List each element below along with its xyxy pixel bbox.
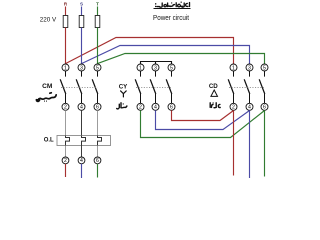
- svg-text:6: 6: [96, 105, 99, 111]
- contact stub lower: [97, 94, 99, 103]
- svg-text:6: 6: [96, 158, 99, 164]
- svg-text:4: 4: [248, 105, 251, 111]
- wire CM terminal to overload: [97, 110, 99, 135]
- wire phase S to CM: [81, 28, 83, 65]
- motor lead (colored): [81, 164, 83, 178]
- motor lead (colored): [65, 164, 67, 177]
- contact terminal 5: [168, 64, 175, 71]
- contact terminal 1: [230, 64, 237, 71]
- contactor CY star bridge bar: [141, 62, 172, 65]
- contact terminal 6: [94, 103, 101, 110]
- label Arabic dilta (delta): [210, 103, 220, 108]
- wire phase S drop: [81, 7, 83, 17]
- svg-text:2: 2: [64, 158, 67, 164]
- contact terminal 4: [246, 103, 253, 110]
- contact stub lower: [249, 94, 251, 103]
- contact stub upper: [155, 71, 157, 77]
- contact blade: [135, 79, 141, 94]
- contact terminal 2: [62, 103, 69, 110]
- contactor CY pole 3: [166, 64, 175, 111]
- overload heater element: [98, 136, 102, 146]
- contact terminal 4: [152, 103, 159, 110]
- star symbol Y: [121, 91, 127, 97]
- wire phase R drop: [65, 7, 67, 17]
- svg-text:T: T: [96, 2, 99, 7]
- contact stub lower: [233, 94, 235, 103]
- svg-text:5: 5: [96, 65, 99, 71]
- svg-text:220 V: 220 V: [40, 17, 57, 24]
- contact terminal 2: [137, 103, 144, 110]
- contactor CY dashed linkage: [136, 87, 172, 89]
- contact stub lower: [155, 94, 157, 103]
- wire phase R feeder to CD: [66, 38, 234, 65]
- contact blade: [92, 79, 98, 94]
- contact terminal 1: [137, 64, 144, 71]
- svg-text:1: 1: [232, 65, 235, 71]
- contact blade: [60, 79, 66, 94]
- contactor CM pole 3: [92, 64, 101, 111]
- label Arabic raisi (main): [36, 93, 56, 102]
- motor terminal 4: [78, 157, 85, 164]
- overload heater element: [82, 136, 86, 146]
- contact blade: [166, 79, 172, 94]
- svg-text:CD: CD: [209, 83, 218, 90]
- CY bar stub middle: [155, 62, 157, 65]
- svg-text:4: 4: [80, 105, 83, 111]
- svg-text:3: 3: [154, 65, 157, 71]
- motor terminal 6: [94, 157, 101, 164]
- contact stub upper: [264, 71, 266, 77]
- contact terminal 5: [94, 64, 101, 71]
- overload heater element: [66, 136, 70, 146]
- contact terminal 6: [261, 103, 268, 110]
- contact stub lower: [140, 94, 142, 103]
- contact terminal 1: [62, 64, 69, 71]
- wire phase S feeder to CD: [82, 46, 250, 65]
- wire CY 4 to CD 4 (blue): [156, 110, 250, 129]
- svg-text:2: 2: [232, 105, 235, 111]
- contactor CM pole 2: [76, 64, 85, 111]
- svg-text:4: 4: [154, 105, 157, 111]
- contactor CY pole 1: [135, 64, 144, 111]
- contactor CM pole 1: [60, 64, 69, 111]
- contact terminal 3: [246, 64, 253, 71]
- contactor CM dashed linkage: [61, 87, 98, 89]
- wire overload to motor terminal: [97, 146, 99, 158]
- svg-text:3: 3: [80, 65, 83, 71]
- contactor CY pole 2: [150, 64, 159, 111]
- title diacritic dots and colon: [155, 2, 182, 8]
- wire phase R to CM: [65, 28, 67, 65]
- motor lead U2 (red): [233, 110, 235, 175]
- wire CY 6 to CD 2 (red): [172, 110, 234, 120]
- contactor CD pole 1: [228, 64, 237, 111]
- wire overload to motor terminal: [65, 146, 67, 158]
- svg-text:O.L: O.L: [44, 138, 54, 144]
- motor lead V2 (blue): [249, 110, 251, 178]
- wire CY 2 to CD 6 (green): [141, 110, 265, 137]
- fuse F1: [63, 16, 68, 28]
- wire overload to motor terminal: [81, 146, 83, 158]
- wire phase T feeder to CD: [98, 54, 265, 65]
- svg-text:1: 1: [64, 65, 67, 71]
- svg-text:2: 2: [64, 105, 67, 111]
- contact stub lower: [65, 94, 67, 103]
- svg-text:CM: CM: [42, 83, 53, 90]
- contact stub upper: [81, 71, 83, 77]
- title underline: [154, 8, 191, 10]
- overload relay O.L box: [57, 136, 111, 146]
- contact stub lower: [81, 94, 83, 103]
- contact terminal 2: [230, 103, 237, 110]
- contactor CD pole 3: [259, 64, 268, 111]
- contactor CD dashed linkage: [229, 87, 265, 89]
- contactor CD pole 2: [244, 64, 253, 111]
- contact blade: [150, 79, 156, 94]
- contact stub upper: [97, 71, 99, 77]
- wire CM terminal to overload: [81, 110, 83, 135]
- fuse F3: [95, 16, 100, 28]
- svg-text:5: 5: [170, 65, 173, 71]
- svg-text:6: 6: [263, 105, 266, 111]
- contact stub upper: [249, 71, 251, 77]
- contact stub upper: [140, 71, 142, 77]
- contact stub lower: [264, 94, 266, 103]
- contact blade: [76, 79, 82, 94]
- delta symbol: [211, 90, 218, 96]
- svg-text:S: S: [80, 2, 83, 7]
- contact stub upper: [171, 71, 173, 77]
- svg-text:5: 5: [263, 65, 266, 71]
- wire phase T drop: [97, 7, 99, 17]
- svg-text:1: 1: [139, 65, 142, 71]
- motor lead W2 (green): [264, 110, 266, 176]
- motor terminal 2: [62, 157, 69, 164]
- contact terminal 3: [78, 64, 85, 71]
- label Arabic sitar (star): [117, 103, 127, 109]
- motor lead (colored): [97, 164, 99, 178]
- contact stub upper: [233, 71, 235, 77]
- contact terminal 5: [261, 64, 268, 71]
- contact blade: [244, 79, 250, 94]
- svg-text:2: 2: [139, 105, 142, 111]
- contact blade: [259, 79, 265, 94]
- wire CM terminal to overload: [65, 110, 67, 135]
- title Arabic: dairat alqudra (power circuit): [157, 3, 190, 8]
- wire phase T to CM: [97, 28, 99, 65]
- svg-text:4: 4: [80, 158, 83, 164]
- fuse F2: [79, 16, 84, 28]
- contact terminal 4: [78, 103, 85, 110]
- svg-text:CY: CY: [119, 83, 128, 90]
- contact terminal 3: [152, 64, 159, 71]
- contact stub upper: [65, 71, 67, 77]
- contact terminal 6: [168, 103, 175, 110]
- svg-text:Power circuit: Power circuit: [153, 13, 189, 22]
- contact blade: [228, 79, 234, 94]
- contact stub lower: [171, 94, 173, 103]
- svg-text:6: 6: [170, 105, 173, 111]
- svg-text:3: 3: [248, 65, 251, 71]
